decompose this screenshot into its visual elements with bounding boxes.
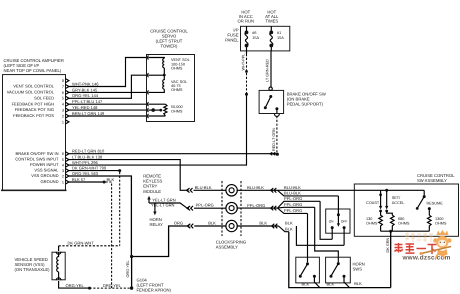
svg-text:VACUUM SOL CONTROL: VACUUM SOL CONTROL (7, 90, 55, 95)
wire RED-LT GRN 810 pin6 to brake switch splice (69, 153, 277, 155)
wire BLU-BLK into clockspring (194, 189, 227, 191)
svg-text:GRY-BLK 145: GRY-BLK 145 (72, 87, 98, 92)
svg-text:RESUME: RESUME (427, 201, 444, 205)
svg-text:6: 6 (62, 91, 64, 95)
svg-text:1: 1 (62, 120, 64, 124)
svg-text:ORG-YEL 563: ORG-YEL 563 (72, 171, 99, 176)
svg-text:2: 2 (62, 174, 64, 178)
fuse #6 15A (245, 26, 248, 51)
horn switch 2 (box) (326, 257, 351, 283)
wire PPL-LT BLU 147 pin4 to servo (69, 103, 146, 105)
svg-text:BLK: BLK (302, 282, 310, 287)
coast switch (380, 190, 382, 195)
svg-text:BLU-BLK: BLU-BLK (284, 191, 301, 196)
svg-text:PEDAL SUPPORT): PEDAL SUPPORT) (287, 102, 324, 107)
watermark dzsc.com (395, 230, 452, 262)
clockspring coil 2 (226, 202, 237, 213)
svg-text:OHMS: OHMS (171, 109, 183, 113)
svg-text:WHT-PNK 146: WHT-PNK 146 (72, 81, 99, 86)
svg-text:SOL FEED: SOL FEED (34, 95, 54, 100)
cruise control amplifier U1 (box) (3, 75, 66, 191)
svg-text:YEL-LT GRN: YEL-LT GRN (151, 203, 175, 208)
svg-text:#6: #6 (252, 31, 256, 35)
resistor 130 ohms (379, 211, 383, 231)
ground wire ORG-YEL to G104 (131, 257, 133, 289)
vent solenoid coil (149, 58, 165, 75)
servo connector pins ( (147, 56, 150, 119)
I/P fuse panel (box) (241, 26, 290, 51)
svg-text:COAST: COAST (366, 201, 380, 205)
wire WHT-PPL 296 pin4 to fuse 6 (69, 94, 247, 165)
svg-text:OHMS: OHMS (398, 222, 410, 226)
svg-text:SW ASSEMBLY: SW ASSEMBLY (417, 178, 447, 183)
svg-text:PPL-ORG: PPL-ORG (284, 202, 302, 207)
svg-text:5: 5 (62, 97, 64, 101)
svg-text:RELAY: RELAY (150, 222, 164, 227)
wire DK GRN-WHT 799 pin3 (69, 170, 121, 172)
wire BRN-LT GRN 149 pin2 to servo (69, 115, 146, 117)
svg-text:6: 6 (62, 152, 64, 156)
svg-text:8: 8 (62, 79, 64, 83)
amplifier connector pins 8-1 (upper group) (66, 79, 69, 124)
wire ORG-YEL 144 pin5 to servo (69, 75, 146, 98)
svg-text:GROUND: GROUND (41, 179, 59, 184)
svg-text:FEEDBACK POT SIG: FEEDBACK POT SIG (15, 107, 54, 112)
wire PPL-ORG b2 to horn switch 2 (315, 207, 339, 262)
wire PPL-ORG b1 to ON contact (320, 201, 332, 239)
wire YEL-RED 148 pin3 to servo (69, 109, 146, 111)
wire GRY-BLK 145 pin6 to servo (69, 91, 146, 93)
wire BLU-BLK branch 1 into switch assembly (278, 189, 425, 191)
svg-text:15A: 15A (252, 36, 259, 40)
svg-text:ON: ON (329, 219, 334, 223)
svg-text:OHMS: OHMS (366, 222, 378, 226)
svg-text:WHT-PPL 296: WHT-PPL 296 (72, 160, 98, 165)
fork BLK branch 2 (279, 226, 289, 232)
svg-text:ENTRY: ENTRY (143, 184, 157, 189)
wire YEL-LT GRN to clockspring (149, 203, 187, 208)
on/off switch (box) (326, 209, 350, 233)
dashed RED-LT GRN brake sw to amplifier (276, 116, 278, 154)
inline connector chevrons BLU-BLK left (187, 188, 192, 193)
svg-text:BRN-LT GRN 149: BRN-LT GRN 149 (72, 111, 105, 116)
wire WHT-PPL fuse 6 down (dashed portion) (246, 51, 248, 54)
horn switch 1 (box) (296, 257, 320, 283)
feedback potentiometer 50,000 ohms (149, 104, 166, 116)
arrow to horn relay (154, 203, 156, 212)
svg-text:DK GRN: DK GRN (386, 237, 390, 252)
svg-text:ORG-YEL: ORG-YEL (66, 283, 85, 288)
svg-text:OHMS: OHMS (435, 222, 447, 226)
svg-text:PANEL: PANEL (225, 38, 239, 43)
svg-text:DK GRN-WHT 799: DK GRN-WHT 799 (72, 166, 107, 171)
fork PPL-ORG three branches (278, 201, 321, 213)
resistor 1300 ohms (428, 209, 430, 216)
inline connector arrowhead BLK right (271, 224, 274, 228)
svg-text:RED-LT GRN 810: RED-LT GRN 810 (72, 149, 105, 154)
clockspring coil 1 (226, 185, 237, 196)
wire ORG-YEL from VSS (59, 281, 90, 288)
wire BLK bottom bus to DK GRN (289, 232, 391, 288)
svg-text:5: 5 (62, 158, 64, 162)
svg-text:TOWER): TOWER) (161, 44, 179, 49)
wire BLK b1 to OFF contact (296, 226, 344, 245)
svg-text:BLU-BLK: BLU-BLK (247, 185, 264, 190)
svg-text:POWER INPUT: POWER INPUT (30, 162, 59, 167)
junction dot switch feed (385, 189, 388, 192)
svg-text:OR RUN: OR RUN (238, 18, 255, 23)
inline connector arrowhead BLU-BLK right (270, 188, 273, 192)
splice dot RED-LT GRN / brake sw (276, 153, 279, 156)
svg-text:CONTROL SWS INPUT: CONTROL SWS INPUT (15, 157, 59, 162)
svg-text:VSS GROUND: VSS GROUND (31, 173, 58, 178)
svg-text:4: 4 (62, 103, 64, 107)
inline connector chevrons on RED-LT GRN (270, 152, 275, 155)
dashed DK GRN-WHT down to VSS (119, 172, 121, 246)
brake switch top pin (269, 87, 272, 90)
junction dot BLK 57 (103, 181, 106, 184)
svg-text:2: 2 (62, 114, 64, 118)
svg-text:BLK: BLK (327, 282, 335, 287)
inline connector arrowhead BLK left (186, 224, 189, 228)
junction dot ORG/ORG-YEL at G104 branch (130, 255, 133, 258)
svg-text:LT BLU-BLK 138: LT BLU-BLK 138 (72, 155, 103, 160)
svg-text:ORG-YEL: ORG-YEL (126, 260, 130, 277)
svg-text:BLK: BLK (285, 227, 293, 232)
svg-text:7: 7 (62, 85, 64, 89)
resume switch (423, 190, 425, 196)
sol feed wire (149, 74, 165, 76)
svg-text:OFF: OFF (341, 219, 347, 223)
cruise control servo (box) (147, 55, 195, 122)
svg-text:SET/: SET/ (392, 196, 401, 200)
amplifier connector pins 6-1 (lower group) (66, 152, 69, 184)
svg-text:15A: 15A (277, 36, 284, 40)
svg-text:DK GRN-WHT: DK GRN-WHT (68, 240, 95, 245)
svg-text:PPL-LT BLU 147: PPL-LT BLU 147 (72, 99, 103, 104)
brake switch contacts (269, 95, 272, 98)
cruise control switch assembly (box) (354, 184, 458, 236)
inline connector arrowhead PPL-ORG left (186, 206, 189, 210)
wire DK GRN down from switch assembly (390, 231, 392, 287)
wire LT GRN-RED fuse 1 to brake switch (270, 51, 272, 87)
wire PPL-ORG into clockspring (194, 207, 227, 209)
wire BLK out of clockspring (237, 225, 279, 227)
svg-text:RED-LT GRN: RED-LT GRN (272, 128, 276, 151)
svg-text:FENDER APRON): FENDER APRON) (137, 287, 172, 292)
fuse #1 15A (270, 26, 273, 51)
fork BLU-BLK branch 2 (278, 190, 339, 196)
wire ORG-YEL 563 pin2 to ground G104 (69, 176, 131, 257)
remote keyless entry module (label) (143, 174, 162, 195)
inline connector chevrons BLU-BLK right (271, 188, 276, 193)
svg-text:FEEDBACK POT HIGH: FEEDBACK POT HIGH (12, 101, 55, 106)
brake switch bottom pin (275, 114, 280, 116)
wire BLK into clockspring (194, 225, 226, 227)
svg-text:4: 4 (62, 164, 64, 168)
arrow to module (148, 199, 150, 203)
wire BLK 57 pin1 (69, 181, 104, 183)
brake on/off switch (box) (259, 90, 284, 113)
svg-text:MODULE: MODULE (143, 189, 161, 194)
dashed ORG-YEL to G104 (90, 287, 132, 289)
svg-text:BLK: BLK (259, 221, 267, 226)
splice dot ORG-YEL (88, 287, 91, 290)
svg-text:PPL-ORG: PPL-ORG (284, 208, 302, 213)
wire DK GRN-WHT from VSS (dashed) (58, 246, 60, 251)
svg-text:ACCEL: ACCEL (392, 201, 405, 205)
svg-text:VENT SOL CONTROL: VENT SOL CONTROL (13, 84, 54, 89)
svg-text:ORG-YEL 144: ORG-YEL 144 (72, 93, 99, 98)
svg-text:ASSEMBLY: ASSEMBLY (216, 245, 238, 250)
svg-text:ORG: ORG (174, 221, 183, 226)
wire labels upper rows (72, 81, 107, 181)
svg-text:(ON TRANSAXLE): (ON TRANSAXLE) (15, 267, 51, 272)
VSS bottom pin (56, 278, 61, 280)
wire WHT-PNK 146 pin7 to servo (69, 58, 146, 87)
svg-text:SWS: SWS (353, 266, 363, 271)
inline connector chevrons PPL-ORG right (271, 206, 276, 211)
set/accel switch (386, 190, 388, 206)
svg-text:680: 680 (398, 217, 404, 221)
svg-text:OHMS: OHMS (171, 88, 183, 92)
wire PPL-ORG out of clockspring (237, 207, 278, 209)
svg-text:#1: #1 (277, 31, 281, 35)
svg-text:ORG-YEL: ORG-YEL (103, 283, 122, 288)
clockspring assembly (dashed boundary) (222, 181, 241, 236)
svg-text:BLK: BLK (354, 281, 362, 286)
wire ORG from ground junction up to clockspring (132, 226, 188, 257)
svg-text:YEL-RED 148: YEL-RED 148 (72, 105, 98, 110)
clockspring coil 3 (226, 220, 237, 231)
svg-text:LT GRN-RED: LT GRN-RED (266, 59, 270, 82)
svg-text:PPL-ORG: PPL-ORG (247, 203, 265, 208)
svg-text:50,000: 50,000 (171, 105, 183, 109)
svg-text:BLU-BLK: BLU-BLK (284, 185, 301, 190)
inline connector chevrons BLK left (188, 224, 193, 229)
svg-text:3: 3 (62, 169, 64, 173)
inline connector chevrons PPL-ORG left (188, 206, 193, 211)
svg-text:PPL-ORG: PPL-ORG (284, 196, 302, 201)
wire PPL-ORG b3 to horn switch 1 (307, 213, 309, 262)
inline connector arrowhead BLU-BLK left (185, 188, 188, 192)
svg-text:BLK 57: BLK 57 (72, 177, 86, 182)
mascot (420, 230, 452, 259)
junction dot DK GRN-WHT (118, 169, 121, 172)
svg-text:TIMES: TIMES (265, 18, 278, 23)
svg-text:1: 1 (62, 180, 64, 184)
svg-text:BLK: BLK (107, 177, 115, 182)
wire BLU-BLK out of clockspring (237, 189, 278, 191)
svg-text:OHMS: OHMS (171, 66, 183, 70)
svg-text:BLU-BLK: BLU-BLK (195, 185, 212, 190)
svg-text:1300: 1300 (435, 217, 443, 221)
wire LT BLU-BLK 138 pin5 to clockspring connector (69, 160, 187, 191)
inline connector chevrons BLK right (272, 224, 277, 229)
svg-text:3: 3 (62, 109, 64, 113)
svg-text:BLK: BLK (285, 221, 293, 226)
svg-text:WHT-PPL: WHT-PPL (242, 54, 246, 71)
resistor 680 ohms (387, 211, 393, 215)
ground G104 (130, 286, 133, 289)
VSS top pin (56, 252, 61, 254)
svg-text:FEEDBACK POT POS: FEEDBACK POT POS (13, 113, 54, 118)
splice dot WHT-PPL (245, 93, 248, 96)
svg-text:BRAKE ON/OFF SW IN: BRAKE ON/OFF SW IN (16, 151, 59, 156)
svg-text:PPL-ORG: PPL-ORG (196, 203, 214, 208)
svg-text:BLK: BLK (208, 221, 216, 226)
vacuum solenoid coil (149, 75, 165, 92)
VSS coil (57, 252, 59, 280)
dashed BLK 57 to ground (106, 182, 112, 288)
resistor common bus (381, 230, 430, 232)
svg-text:130: 130 (366, 217, 372, 221)
svg-text:VSS SIGNAL: VSS SIGNAL (34, 168, 59, 173)
svg-text:NEAR TOP OF COWL PANEL): NEAR TOP OF COWL PANEL) (4, 68, 62, 73)
junction dot sol feed (163, 74, 166, 77)
vehicle speed sensor VSS (box) (52, 252, 65, 280)
inline connector arrowhead PPL-ORG right (270, 206, 273, 210)
